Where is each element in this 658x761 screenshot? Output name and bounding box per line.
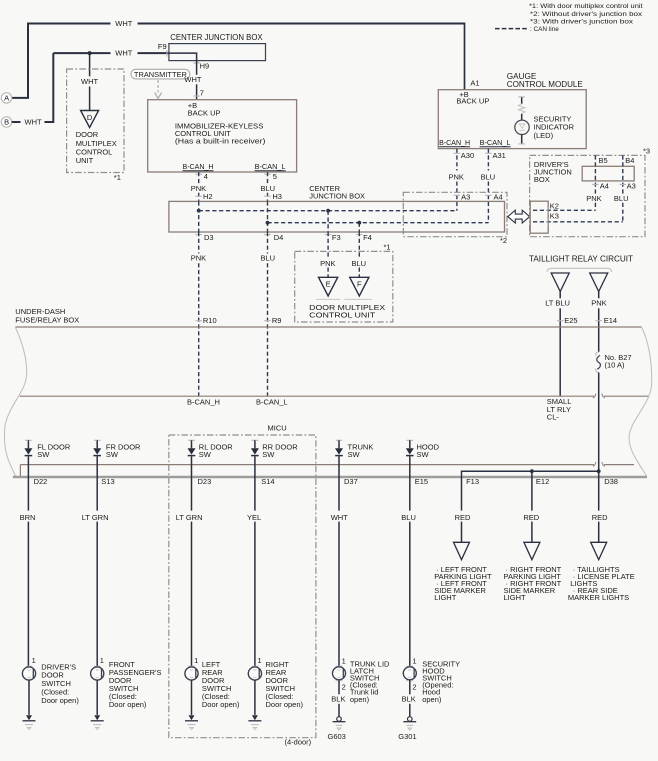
svg-text:LT GRN: LT GRN — [176, 513, 203, 522]
fuse No. B27 — [596, 352, 601, 373]
svg-text:SW: SW — [348, 450, 361, 459]
svg-text:(4-door): (4-door) — [285, 738, 312, 747]
wire K2 (CAN) — [533, 209, 595, 211]
under-dash box mid line (relay row) — [20, 394, 649, 398]
svg-text:MICU: MICU — [268, 424, 287, 433]
svg-text:1: 1 — [258, 656, 262, 665]
svg-text:(Has a built-in receiver): (Has a built-in receiver) — [175, 137, 266, 146]
svg-text:H3: H3 — [272, 192, 282, 201]
svg-text:D38: D38 — [604, 477, 618, 486]
pin D4 — [264, 233, 283, 242]
svg-text:YEL: YEL — [247, 513, 261, 522]
svg-text:open): open) — [350, 695, 370, 704]
svg-text:TAILLIGHT RELAY CIRCUIT: TAILLIGHT RELAY CIRCUIT — [529, 255, 633, 264]
under-dash box bottom edge — [13, 476, 647, 479]
svg-text:S14: S14 — [261, 477, 274, 486]
pin F9 — [158, 42, 167, 57]
label right front parking/marker lights — [504, 565, 562, 602]
label B-CAN_H (immobilizer) — [183, 162, 214, 171]
svg-text:BLU: BLU — [261, 253, 276, 262]
label driver's junction box — [534, 160, 572, 184]
svg-text:F9: F9 — [158, 42, 167, 51]
wire F4 BLU into door mux — [352, 232, 367, 277]
wire LT GRN to switch — [176, 477, 203, 667]
ground (left rear door switch) — [185, 715, 198, 729]
wire to ground (driver's door switch) — [28, 680, 30, 715]
pin 5 — [264, 172, 277, 181]
svg-text:RED: RED — [455, 513, 471, 522]
ground (right rear door switch) — [248, 715, 261, 729]
connector triangle LT BLU — [551, 273, 569, 292]
svg-text:*1: With door multiplex contro: *1: With door multiplex control unit — [529, 3, 643, 10]
label B-CAN_L (gauge) — [480, 138, 511, 147]
connector B — [1, 117, 11, 127]
switch left rear door switch — [185, 656, 198, 680]
svg-text:Door open): Door open) — [202, 700, 240, 709]
svg-text:BLK: BLK — [331, 695, 345, 704]
connector triangle RED — [454, 542, 470, 559]
svg-text:D3: D3 — [204, 233, 214, 242]
pin H3 — [264, 192, 282, 201]
input fr door sw (MICU) — [93, 440, 141, 477]
under-dash fuse/relay box right wavy edge — [629, 327, 652, 476]
connector D triangle — [81, 111, 99, 128]
svg-text:SW: SW — [106, 450, 119, 459]
svg-text:G301: G301 — [398, 732, 416, 741]
svg-text:D4: D4 — [274, 233, 284, 242]
svg-text:D: D — [87, 113, 93, 122]
wire D3 to R10 (CAN PNK) — [191, 232, 206, 396]
wire BLU to switch — [401, 477, 416, 667]
input fl door sw (MICU) — [24, 440, 70, 477]
svg-text:BLU: BLU — [481, 173, 496, 182]
pin 7 — [193, 89, 204, 98]
label driver's door switch — [41, 662, 79, 705]
svg-text:BACK UP: BACK UP — [456, 97, 489, 106]
svg-text:PNK: PNK — [320, 259, 335, 268]
svg-text:D23: D23 — [198, 477, 212, 486]
svg-text:5: 5 — [273, 172, 277, 181]
svg-text:A1: A1 — [470, 79, 479, 88]
svg-text:E12: E12 — [536, 477, 549, 486]
switch security hood switch — [403, 657, 416, 692]
center junction box (top) — [169, 33, 266, 61]
svg-text:LIGHT: LIGHT — [504, 593, 527, 602]
pin A4 (driver's junction box) — [592, 181, 609, 190]
switch right rear door switch — [248, 656, 261, 680]
connects-to double arrow — [508, 210, 530, 223]
svg-text:7: 7 — [200, 89, 204, 98]
label taillights/license/rear markers — [568, 565, 635, 602]
svg-text:CENTER JUNCTION BOX: CENTER JUNCTION BOX — [170, 33, 263, 42]
transmitter arrow — [155, 80, 162, 99]
wire to ground (left rear door switch) — [191, 680, 193, 715]
svg-text:WHT: WHT — [81, 77, 98, 86]
label immobilizer-keyless control unit — [175, 122, 266, 146]
svg-text:PNK: PNK — [449, 173, 464, 182]
pin E14 — [595, 316, 617, 325]
wire F3 PNK into door mux — [320, 232, 335, 277]
svg-text:FUSE/RELAY BOX: FUSE/RELAY BOX — [15, 316, 79, 325]
bracket taillight relay — [547, 268, 612, 272]
svg-text:F3: F3 — [332, 233, 341, 242]
svg-text:CONTROL: CONTROL — [76, 147, 113, 156]
svg-text:MARKER LIGHTS: MARKER LIGHTS — [568, 593, 629, 602]
pin R10 — [195, 316, 216, 325]
svg-text:S13: S13 — [101, 477, 114, 486]
svg-text:E14: E14 — [604, 316, 617, 325]
connector A — [1, 93, 11, 103]
svg-text:F4: F4 — [363, 233, 372, 242]
wire to ground (front passenger's door switch) — [96, 680, 98, 715]
node H2 bus — [197, 209, 201, 213]
wire K3 (CAN) — [533, 221, 623, 223]
svg-text:RED: RED — [592, 513, 608, 522]
box driver's junction box connector — [582, 166, 634, 181]
input rr door sw (MICU) — [251, 440, 298, 477]
switch front passenger's door switch — [91, 656, 104, 680]
svg-text:R10: R10 — [203, 316, 217, 325]
svg-text:2: 2 — [342, 682, 346, 691]
svg-text:1: 1 — [32, 656, 36, 665]
svg-text:CONTROL MODULE: CONTROL MODULE — [507, 80, 584, 89]
svg-text:WHT: WHT — [25, 118, 42, 127]
wire B5 to K2 line (CAN) — [594, 155, 596, 210]
input rl door sw (MICU) — [188, 440, 234, 477]
label door multiplex control unit (top left) — [76, 130, 117, 165]
node E12 — [530, 469, 534, 473]
svg-text:A3: A3 — [627, 181, 636, 190]
svg-text:CONTROL UNIT: CONTROL UNIT — [309, 311, 375, 320]
svg-text:open): open) — [422, 695, 442, 704]
svg-text:D22: D22 — [34, 477, 48, 486]
pin A31 — [485, 151, 506, 160]
box immobilizer-keyless control unit — [148, 100, 297, 172]
node F3 bus — [326, 209, 330, 213]
svg-text:BACK UP: BACK UP — [188, 109, 221, 118]
svg-text:LT BLU: LT BLU — [545, 299, 570, 308]
box region *3 (with driver's junction box) — [530, 147, 650, 237]
svg-text:*2: *2 — [500, 236, 507, 245]
connector E triangle — [316, 277, 340, 299]
svg-text:1: 1 — [412, 657, 416, 666]
svg-text:JUNCTION BOX: JUNCTION BOX — [309, 192, 365, 201]
connector triangle RED — [591, 542, 607, 559]
wire F3 stub — [327, 211, 329, 232]
under-dash box inner line — [20, 462, 634, 476]
svg-text:D37: D37 — [344, 477, 358, 486]
wire WHT row 2 — [53, 49, 169, 58]
wire PNK to E14 — [591, 292, 606, 352]
svg-text:SW: SW — [199, 450, 212, 459]
wire to ground (right rear door switch) — [254, 680, 256, 715]
under-dash fuse/relay box left wavy edge — [4, 327, 26, 476]
label B-CAN_L (immobilizer) — [255, 162, 286, 171]
svg-text:BOX: BOX — [534, 175, 550, 184]
svg-text:Door open): Door open) — [41, 696, 79, 705]
box door multiplex control unit (bottom, *1) — [295, 242, 393, 322]
svg-text:E: E — [326, 280, 331, 289]
svg-text:RED: RED — [523, 513, 539, 522]
connector F triangle — [344, 277, 372, 299]
wire CAN bus H (inside junction box) — [199, 210, 457, 212]
wire WHT drop to connector D — [81, 53, 98, 110]
switch trunk lid latch switch — [333, 657, 346, 692]
svg-text:B-CAN_H: B-CAN_H — [187, 397, 220, 406]
wire CAN bus L (inside junction box) — [268, 222, 489, 224]
svg-text:A31: A31 — [493, 151, 506, 160]
svg-text:R9: R9 — [272, 316, 282, 325]
svg-text:LT GRN: LT GRN — [82, 513, 109, 522]
label right rear door switch — [266, 660, 304, 709]
svg-text:F13: F13 — [466, 477, 479, 486]
svg-text:UNIT: UNIT — [76, 156, 94, 165]
input hood sw (MICU) — [406, 440, 440, 477]
svg-text:UNDER-DASH: UNDER-DASH — [15, 307, 65, 316]
svg-text:1: 1 — [100, 656, 104, 665]
wire BLU pin5 to H3 (CAN) — [261, 172, 276, 201]
svg-text:B: B — [4, 118, 9, 127]
box K connector — [530, 201, 548, 233]
svg-text:A: A — [4, 94, 9, 103]
wire B4 to K3 line (CAN) — [622, 155, 624, 221]
pin H9 — [193, 62, 209, 71]
node F4 bus — [357, 221, 361, 225]
label door multiplex control unit (bottom) — [309, 303, 385, 320]
wire BRN to switch — [20, 477, 36, 667]
svg-text:BLU: BLU — [614, 194, 629, 203]
svg-text:B-CAN_H: B-CAN_H — [439, 138, 470, 147]
ground (driver's door switch) — [23, 715, 36, 729]
wire BLK (trunk lid latch switch) — [331, 680, 345, 717]
under-dash fuse/relay box top edge — [15, 326, 641, 328]
svg-text:B-CAN_L: B-CAN_L — [255, 162, 286, 171]
svg-text:*1: *1 — [114, 173, 121, 182]
pin F4 — [356, 233, 372, 242]
wire E12 stub — [531, 471, 533, 477]
wire D4 to R9 (CAN BLU) — [261, 232, 276, 396]
svg-text:WHT: WHT — [184, 75, 201, 84]
svg-text:LIGHT: LIGHT — [434, 593, 457, 602]
wire F9 to H9 inside box — [169, 53, 197, 61]
wire BLU A31 to A4 (CAN) — [481, 149, 496, 223]
label center junction box (main) — [309, 184, 365, 201]
label left rear door switch — [202, 660, 240, 709]
svg-text:BLU: BLU — [352, 259, 367, 268]
label front passenger's door switch — [109, 660, 162, 709]
connector triangle PNK — [590, 273, 608, 292]
svg-text:BLK: BLK — [402, 695, 416, 704]
box region *2 (without driver's junction box) — [403, 192, 507, 245]
pin E25 — [557, 316, 578, 325]
svg-text:Door open): Door open) — [109, 700, 147, 709]
svg-text:Door open): Door open) — [266, 700, 304, 709]
box gauge control module — [438, 90, 586, 149]
svg-text:1: 1 — [342, 657, 346, 666]
svg-text:2: 2 — [412, 682, 416, 691]
wire LT BLU to E25 — [545, 292, 570, 397]
pin A1 — [470, 79, 479, 88]
label +B BACK UP (gauge) — [456, 90, 489, 105]
label fuse No. B27 (10 A) — [605, 353, 632, 370]
svg-text:WHT: WHT — [115, 19, 132, 28]
pin D3 — [195, 233, 213, 242]
svg-text:*2: Without driver's junction: *2: Without driver's junction box — [530, 11, 643, 18]
ground G603 — [328, 717, 346, 742]
svg-text:F: F — [357, 280, 362, 289]
wire E14 fuse down to relay node — [598, 373, 600, 472]
switch driver's door switch — [22, 656, 35, 680]
svg-text:DOOR: DOOR — [76, 130, 99, 139]
svg-text:1: 1 — [194, 656, 198, 665]
svg-text:H2: H2 — [203, 192, 213, 201]
svg-text:E25: E25 — [564, 316, 577, 325]
wire H3 through box to D4 — [267, 201, 269, 232]
resistor (security indicator) — [518, 97, 525, 120]
svg-text:K3: K3 — [550, 211, 559, 220]
pin A30 — [454, 151, 475, 160]
wire LT GRN to switch — [82, 477, 109, 667]
svg-text:A30: A30 — [461, 151, 474, 160]
wire taillight feed bus (F13-E12-D38) — [462, 471, 599, 477]
pin A3 (driver's junction box) — [620, 181, 636, 190]
wire RED taillight feed — [455, 477, 471, 542]
wire RED taillight feed — [592, 477, 608, 542]
svg-text:A3: A3 — [461, 193, 470, 202]
pin R9 — [264, 316, 281, 325]
wire H2 through box to D3 — [198, 201, 200, 232]
svg-text:*3: *3 — [643, 147, 650, 156]
label gauge control module — [507, 72, 584, 89]
pin A4 (junction box top) — [485, 193, 503, 202]
svg-text:CL-: CL- — [547, 412, 560, 421]
svg-text:B5: B5 — [599, 156, 608, 165]
svg-text:E15: E15 — [415, 477, 428, 486]
svg-text:PNK: PNK — [591, 299, 606, 308]
node H3 bus — [266, 221, 270, 225]
svg-text:A4: A4 — [494, 193, 503, 202]
label +B BACK UP (immobilizer) — [188, 101, 221, 118]
pin F3 — [325, 233, 341, 242]
svg-text:WHT: WHT — [115, 49, 132, 58]
svg-text:B-CAN_L: B-CAN_L — [480, 138, 511, 147]
label B-CAN_H (gauge) — [439, 138, 470, 147]
svg-text:BRN: BRN — [20, 513, 36, 522]
svg-text:K2: K2 — [550, 201, 559, 210]
pin H2 — [195, 192, 212, 201]
svg-text:TRANSMITTER: TRANSMITTER — [134, 70, 188, 79]
wire H9 to pin 7 WHT — [184, 61, 201, 100]
svg-text:A4: A4 — [600, 181, 609, 190]
node junction row2 — [88, 51, 92, 55]
svg-text:H9: H9 — [200, 62, 210, 71]
transmitter — [131, 69, 190, 79]
label left front parking/marker lights — [434, 565, 492, 602]
LED security indicator — [515, 120, 529, 144]
box center junction box (main) — [169, 201, 505, 232]
connector triangle RED — [524, 542, 540, 559]
wire D38 stub — [598, 471, 600, 477]
svg-text:*3: With driver's junction box: *3: With driver's junction box — [530, 18, 634, 25]
box MICU / 4-door region — [169, 435, 316, 738]
ground (front passenger's door switch) — [91, 715, 104, 729]
label security indicator (LED) — [534, 114, 575, 139]
input trunk sw (MICU) — [335, 440, 373, 477]
svg-text:(10 A): (10 A) — [605, 361, 626, 370]
svg-text:(LED): (LED) — [534, 131, 554, 140]
label small lt rly cl- — [547, 397, 572, 421]
wire WHT top row from A — [12, 19, 465, 98]
wire YEL to switch — [247, 477, 261, 667]
label under-dash fuse/relay box — [15, 307, 79, 325]
note legend — [495, 3, 643, 33]
wire RED taillight feed — [523, 477, 539, 542]
node D38 — [597, 469, 601, 473]
wire F4 stub — [358, 223, 360, 232]
label trunk lid latch switch — [350, 659, 390, 704]
svg-text:B-CAN_H: B-CAN_H — [183, 162, 214, 171]
svg-text:SW: SW — [37, 450, 50, 459]
svg-text:B4: B4 — [625, 156, 634, 165]
wire PNK pin4 to H2 (CAN) — [191, 172, 206, 201]
wire PNK A30 to A3 (CAN) — [449, 149, 464, 211]
pin 4 — [195, 172, 208, 181]
box door multiplex control unit (top left, *1) — [67, 69, 124, 182]
wire WHT B lead — [12, 53, 54, 127]
svg-text:SW: SW — [262, 450, 275, 459]
svg-text:PNK: PNK — [191, 253, 206, 262]
svg-text:*1: *1 — [384, 242, 391, 251]
svg-text:BLU: BLU — [401, 513, 416, 522]
svg-text:WHT: WHT — [331, 513, 348, 522]
label security hood switch — [422, 659, 460, 704]
svg-text:B-CAN_L: B-CAN_L — [256, 397, 288, 406]
svg-text:G603: G603 — [328, 732, 346, 741]
svg-text:: CAN line: : CAN line — [530, 26, 559, 33]
wire BLK (security hood switch) — [402, 680, 416, 717]
ground G301 — [398, 717, 416, 742]
svg-text:PNK: PNK — [586, 194, 601, 203]
pin A3 (junction box top) — [454, 193, 471, 202]
wire WHT to switch — [331, 477, 348, 667]
svg-text:SW: SW — [417, 450, 430, 459]
svg-text:4: 4 — [204, 172, 208, 181]
